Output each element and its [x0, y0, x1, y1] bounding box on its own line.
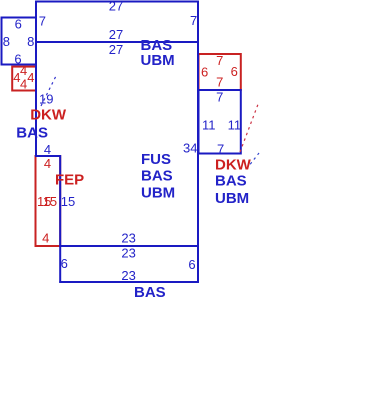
- red 4x4 stoop rectangle (left): [12, 67, 36, 91]
- bottom BAS rectangle bottom wall 23: [59, 281, 199, 283]
- small left blue rectangle 6x8: [2, 18, 37, 65]
- svg-text:7: 7: [216, 74, 223, 89]
- main outline right wall 34: [197, 1, 199, 283]
- svg-text:FUS: FUS: [141, 151, 171, 168]
- svg-text:23: 23: [121, 268, 135, 283]
- svg-text:11: 11: [202, 117, 216, 132]
- svg-text:27: 27: [109, 0, 123, 14]
- right red dashed leader: [240, 103, 259, 152]
- svg-text:15: 15: [43, 194, 57, 209]
- svg-text:BAS: BAS: [134, 284, 166, 301]
- right blue dashed leader to DKW: [247, 153, 260, 169]
- right blue rectangle 7x11: [199, 90, 241, 154]
- svg-text:7: 7: [39, 13, 46, 28]
- svg-text:34: 34: [183, 140, 197, 155]
- main outline top wall 27: [35, 1, 199, 3]
- BAS/UBM divider wall 27: [36, 41, 198, 43]
- svg-text:7: 7: [216, 89, 223, 104]
- svg-text:DKW: DKW: [215, 156, 252, 173]
- svg-text:4: 4: [44, 156, 51, 171]
- svg-text:7: 7: [216, 53, 223, 68]
- svg-text:UBM: UBM: [141, 52, 175, 69]
- svg-text:BAS: BAS: [215, 173, 247, 190]
- svg-text:BAS: BAS: [141, 168, 173, 185]
- FEP red rectangle (left lower porch): [36, 156, 61, 246]
- svg-text:6: 6: [201, 65, 208, 80]
- svg-text:UBM: UBM: [141, 185, 175, 202]
- svg-text:6: 6: [231, 64, 238, 79]
- svg-text:BAS: BAS: [16, 124, 48, 141]
- svg-text:7: 7: [190, 13, 197, 28]
- svg-text:4: 4: [27, 70, 34, 85]
- svg-text:8: 8: [3, 34, 10, 49]
- right red stoop rectangle 7x6: [199, 54, 241, 90]
- left blue dashed leader to DKW: [41, 74, 57, 106]
- svg-text:6: 6: [61, 256, 68, 271]
- lower-left vertical wall 15/6: [59, 155, 61, 283]
- svg-text:4: 4: [44, 142, 51, 157]
- main outline left wall: [35, 1, 37, 157]
- svg-text:FEP: FEP: [55, 171, 84, 188]
- svg-text:15: 15: [61, 194, 75, 209]
- svg-text:DKW: DKW: [30, 106, 67, 123]
- svg-text:27: 27: [109, 27, 123, 42]
- svg-text:23: 23: [121, 246, 135, 261]
- svg-text:27: 27: [109, 42, 123, 57]
- svg-text:UBM: UBM: [215, 190, 249, 207]
- svg-text:6: 6: [188, 257, 195, 272]
- svg-text:8: 8: [27, 34, 34, 49]
- step wall 4 above FEP: [35, 155, 61, 157]
- svg-text:7: 7: [217, 141, 224, 156]
- svg-text:19: 19: [39, 91, 53, 106]
- svg-text:4: 4: [20, 77, 27, 92]
- svg-text:23: 23: [121, 231, 135, 246]
- svg-text:11: 11: [228, 117, 242, 132]
- svg-text:4: 4: [42, 231, 49, 246]
- svg-text:6: 6: [15, 17, 22, 32]
- main bottom wall 23: [59, 245, 199, 247]
